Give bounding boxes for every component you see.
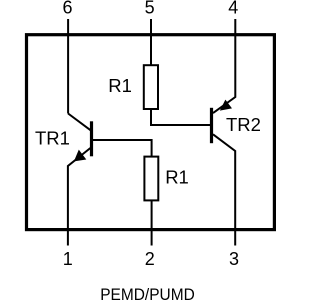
svg-text:6: 6 [62,0,72,18]
wire upper R1 to TR2 base [151,109,211,125]
resistor R1 (upper) [144,65,158,109]
pin 6 wire [67,19,69,114]
pin 2 wire [151,200,153,245]
svg-text:5: 5 [145,0,155,18]
svg-text:R1: R1 [108,75,132,96]
svg-text:PEMD/PUMD: PEMD/PUMD [100,285,195,300]
package outline [27,35,275,230]
svg-text:2: 2 [145,249,155,269]
TR1 base bar [90,121,93,156]
TR1 collector diagonal [68,114,90,131]
pin 5 wire [150,19,152,66]
svg-text:R1: R1 [165,167,189,188]
TR2 emitter arrow [220,100,232,111]
svg-text:3: 3 [229,249,239,269]
svg-text:TR1: TR1 [35,127,70,148]
svg-text:TR2: TR2 [226,114,261,135]
TR2 base bar [210,108,213,143]
svg-text:1: 1 [63,249,73,269]
pin 3 wire / TR2 collector lead [213,134,235,245]
TR1 base wire to lower R1 [92,140,152,157]
resistor R1 (lower) [144,157,158,201]
svg-text:4: 4 [228,0,238,18]
pin 4 wire / TR2 emitter lead [213,19,235,113]
transistor TR1 [68,114,91,162]
transistor TR2 [212,100,233,144]
TR1 emitter arrow [74,150,86,162]
pin 1 wire / TR1 emitter lead [68,148,91,246]
